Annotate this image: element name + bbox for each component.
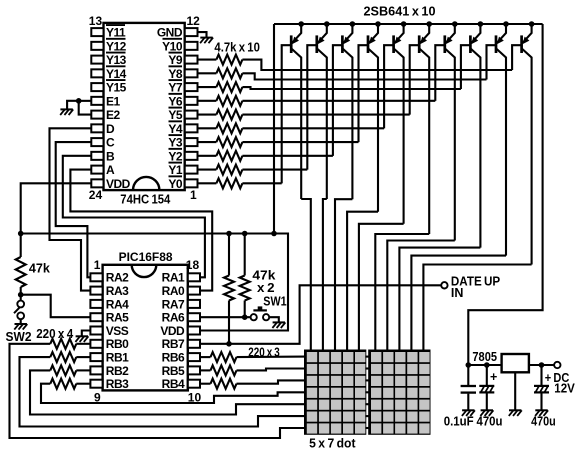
wire U1 Y7 to resistor — [198, 86, 217, 88]
wire RB0 wrap to matrix row — [10, 344, 306, 438]
resistor 4.7k (Y6) — [216, 96, 242, 106]
U1 left pin E1 — [91, 97, 103, 105]
resistor 4.7k (Y4) — [216, 123, 242, 133]
wire RB6 to matrix row1 — [237, 356, 306, 359]
wire U1 Y9 to resistor — [198, 59, 217, 61]
wire U1 Y3 to resistor — [198, 141, 217, 143]
svg-text:RA7: RA7 — [162, 297, 185, 311]
wire Q6 collector to matrix column 6 — [375, 234, 429, 351]
wire RB1 wrap to matrix row — [20, 357, 306, 426]
svg-text:Y0: Y0 — [168, 177, 183, 191]
ground at U1 GND — [200, 37, 212, 39]
U1 left pin Y12 — [91, 42, 103, 50]
wire 7805 ground pin — [514, 372, 516, 410]
resistor 4.7k (Y8) — [216, 68, 242, 78]
transistor Q8 2SB641 — [478, 21, 484, 27]
ground at SW1 — [273, 321, 285, 323]
U1 left pin Y11 — [91, 28, 103, 36]
wire U1 Y4 to resistor — [198, 127, 217, 129]
resistor 4.7k (Y1) — [216, 165, 242, 175]
svg-text:4.7k x 10: 4.7k x 10 — [214, 41, 260, 55]
wire Q2 collector to matrix column 2 — [323, 199, 327, 351]
svg-text:+: + — [490, 370, 497, 384]
wire U2 RB1 to resistor — [76, 356, 90, 358]
svg-text:220 x 4: 220 x 4 — [36, 327, 73, 341]
U1 right pin Y1 — [185, 166, 198, 174]
ground at 470u #2 — [535, 409, 547, 411]
svg-text:RA3: RA3 — [106, 284, 129, 298]
wire U1 E1 to junction — [79, 100, 92, 102]
wire VDD line to 47k — [20, 234, 22, 258]
svg-text:Y6: Y6 — [168, 94, 183, 108]
U1 right pin Y2 — [185, 152, 198, 160]
terminal DATE UP IN — [441, 282, 447, 288]
U1 left pin D — [91, 124, 103, 132]
resistor 220 (RB3) — [50, 379, 76, 389]
resistor 4.7k (Y3) — [216, 137, 242, 147]
svg-text:Y7: Y7 — [168, 81, 183, 95]
wire rail right drop to 5V source — [468, 24, 542, 365]
U1 right pin Y8 — [185, 69, 198, 77]
resistor 47k #1 (RB7 pull-up) — [228, 234, 230, 276]
svg-text:Y3: Y3 — [168, 136, 183, 150]
svg-text:Y14: Y14 — [106, 67, 127, 81]
U1 right pin Y4 — [185, 124, 198, 132]
svg-text:RB5: RB5 — [162, 364, 185, 378]
wire matrix row 5 link — [365, 403, 369, 405]
wire U2 RB0 to resistor — [76, 343, 90, 345]
wire Y7 resistor to Q base riser — [242, 87, 461, 89]
U2 left pin RA5 — [90, 313, 102, 321]
wire U1 Y2 to resistor — [198, 155, 217, 157]
wire Q8 base riser to Y7 — [461, 45, 471, 89]
U2 right pin RB6 — [188, 353, 200, 361]
svg-text:12V: 12V — [554, 382, 575, 396]
svg-text:1: 1 — [94, 258, 101, 272]
wire matrix row 1 link — [365, 356, 369, 358]
wire SW1 to ground — [269, 317, 279, 322]
U2 right pin RB4 — [188, 380, 200, 388]
svg-text:0.1uF: 0.1uF — [444, 415, 474, 429]
wire U2 RB4 to resistor — [200, 383, 211, 385]
svg-text:Y5: Y5 — [168, 108, 183, 122]
wire Q5 collector to matrix column 5 — [359, 224, 404, 351]
node 47k#2 top — [242, 231, 248, 237]
wire Y8 resistor to Q base riser — [242, 73, 486, 79]
svg-text:D: D — [106, 122, 115, 136]
wire to 470u #1 — [486, 365, 488, 385]
wire Q3 base riser to Y2 — [333, 45, 343, 156]
svg-text:24: 24 — [89, 188, 103, 202]
U1 right pin Y3 — [185, 138, 198, 146]
wire Y4 resistor to Q base riser — [242, 127, 384, 129]
svg-text:7805: 7805 — [472, 350, 497, 364]
svg-text:VDD: VDD — [160, 324, 185, 338]
svg-text:RA6: RA6 — [162, 311, 185, 325]
node VDD drop junction — [271, 231, 277, 237]
ground at E1/E2 — [60, 108, 72, 110]
U1 left pin B — [91, 152, 103, 160]
display DS2 5x7 dot matrix — [369, 351, 429, 434]
U1 right pin Y0 — [185, 179, 198, 187]
wire Q4 base riser to Y3 — [359, 45, 369, 142]
svg-text:RB3: RB3 — [106, 377, 129, 391]
svg-text:VDD: VDD — [106, 177, 131, 191]
svg-text:74HC 154: 74HC 154 — [120, 192, 171, 207]
node 5V/0.1uF junction — [466, 362, 472, 368]
switch SW1 left contact — [251, 314, 257, 320]
wire Q10 collector to matrix column 10 — [423, 265, 531, 351]
transistor Q9 2SB641 — [503, 21, 509, 27]
wire 470u #2 to ground — [540, 393, 542, 411]
svg-text:47k: 47k — [29, 261, 50, 275]
wire Q2 base riser to Y1 — [307, 45, 317, 169]
U1 left pin A — [91, 166, 103, 174]
U1 left pin Y14 — [91, 69, 103, 77]
U1 right pin Y6 — [185, 97, 198, 105]
svg-text:VSS: VSS — [106, 324, 129, 338]
transistor Q1 2SB641 — [298, 21, 304, 27]
U2 right pin RA1 — [188, 273, 200, 281]
transistor Q3 2SB641 — [350, 21, 356, 27]
svg-text:RA4: RA4 — [106, 297, 129, 311]
wire U1 C to PIC RA2 — [56, 142, 92, 277]
resistor 4.7k (Y9) — [216, 55, 242, 65]
transistor Q5 2SB641 — [401, 21, 407, 27]
resistor 220 (RB0) — [50, 339, 76, 349]
resistor 220 (RB5) — [211, 365, 237, 375]
svg-text:PIC16F88: PIC16F88 — [119, 250, 173, 264]
U1 left pin Y13 — [91, 56, 103, 64]
U1 right pin GND — [185, 28, 198, 36]
svg-text:Y2: Y2 — [168, 149, 183, 163]
wire U2 RB6 to resistor — [200, 356, 211, 358]
wire matrix row 4 link — [365, 391, 369, 393]
wire Y9 resistor to Q base riser — [242, 60, 512, 70]
wire Q10 base riser to Y9 — [512, 45, 522, 70]
svg-text:5 x 7 dot: 5 x 7 dot — [309, 436, 356, 450]
svg-text:SW1: SW1 — [263, 295, 286, 309]
wire Y0 resistor to Q base riser — [242, 182, 281, 184]
wire matrix row 2 link — [365, 367, 369, 369]
resistor 4.7k (Y0) — [216, 178, 242, 188]
resistor 47k (SW2 pull-up) — [16, 257, 26, 287]
svg-text:x 2: x 2 — [257, 281, 275, 295]
wire matrix row 7 link — [365, 427, 369, 429]
wire U1 Y0 to resistor — [198, 182, 217, 184]
switch SW2 bottom contact — [17, 312, 24, 319]
wire RB4 to matrix row3 — [237, 380, 306, 383]
wire U2 RB2 to resistor — [76, 369, 90, 371]
node 5V/470u junction — [484, 362, 490, 368]
wire Q1 base riser to Y0 — [282, 45, 292, 183]
wire U1 B to PIC RA1 — [63, 156, 205, 277]
wire to 0.1uF — [467, 365, 469, 385]
capacitor 0.1uF — [461, 385, 476, 387]
U2 right pin RA0 — [188, 287, 200, 295]
wire Q8 collector to matrix column 8 — [399, 248, 480, 351]
resistor 220 (RB4) — [211, 379, 237, 389]
switch SW1 button bar — [253, 309, 267, 311]
ground at 0.1uF — [462, 409, 474, 411]
wire U2 RB3 to resistor — [76, 383, 90, 385]
wire Q3 collector to matrix column 3 — [335, 199, 352, 350]
svg-text:RB0: RB0 — [106, 337, 129, 351]
U1 left pin VDD — [91, 179, 103, 187]
U2 left pin RB0 — [90, 340, 102, 348]
wire junction to ground — [67, 101, 79, 110]
svg-text:Y11: Y11 — [106, 26, 126, 40]
wire U2 RB5 to resistor — [200, 369, 211, 371]
resistor 47k #2 (RA6 pull-up) — [244, 234, 246, 276]
U1 right pin Y9 — [185, 56, 198, 64]
capacitor 470u #1 — [479, 385, 494, 387]
regulator U3 7805 body — [502, 354, 529, 372]
wire Q6 base riser to Y5 — [410, 45, 420, 114]
wire Q5 base riser to Y4 — [384, 45, 394, 128]
svg-text:1: 1 — [190, 188, 197, 202]
terminal DC 12V + — [554, 362, 560, 368]
transistor Q2 2SB641 — [324, 21, 330, 27]
U2 left pin VSS — [90, 327, 102, 335]
wire U2 VSS to ground — [82, 331, 91, 337]
svg-text:470u: 470u — [477, 415, 503, 429]
svg-text:Y10: Y10 — [162, 39, 183, 53]
wire RB3 wrap to matrix row — [41, 384, 305, 403]
U2 left pin RB2 — [90, 366, 102, 374]
wire Y3 resistor to Q base riser — [242, 141, 358, 143]
svg-text:SW2: SW2 — [6, 330, 32, 344]
wire +5V top rail — [274, 23, 543, 25]
wire U1 A to PIC RA0 — [70, 170, 212, 291]
wire junction to PIC RA5 — [21, 295, 91, 318]
U1 left pin C — [91, 138, 103, 146]
svg-text:RA1: RA1 — [162, 271, 185, 285]
U2 left pin RB3 — [90, 380, 102, 388]
wire Y2 resistor to Q base riser — [242, 155, 333, 157]
wire RB5 to matrix row2 — [237, 369, 306, 371]
wire 47k to SW2 junction — [20, 287, 22, 295]
resistor 4.7k (Y2) — [216, 151, 242, 161]
U1 left pin Y15 — [91, 83, 103, 91]
svg-text:RB1: RB1 — [106, 351, 129, 365]
svg-text:GND: GND — [157, 26, 183, 40]
wire Q7 base riser to Y6 — [435, 45, 445, 101]
U2 left pin RB1 — [90, 353, 102, 361]
wire rail left drop to VDD line — [273, 24, 275, 234]
svg-text:RA0: RA0 — [162, 284, 185, 298]
svg-text:IN: IN — [451, 286, 464, 300]
IC U1 74HC154 body — [104, 23, 185, 190]
node VDD/47k junction left — [18, 231, 24, 237]
U2 right pin RA6 — [188, 313, 200, 321]
svg-text:Y13: Y13 — [106, 53, 127, 67]
resistor 4.7k (Y5) — [216, 110, 242, 120]
U2 right pin RB7 — [188, 340, 200, 348]
wire Q1 collector to matrix column 1 — [301, 199, 311, 351]
U2 left pin RA4 — [90, 300, 102, 308]
wire RB2 wrap to matrix row — [30, 370, 305, 414]
svg-text:RA5: RA5 — [106, 311, 129, 325]
wire Q4 collector to matrix column 4 — [347, 212, 378, 351]
node 47k#1 top — [226, 231, 232, 237]
svg-text:RB4: RB4 — [162, 377, 185, 391]
svg-text:Y15: Y15 — [106, 81, 127, 95]
svg-text:18: 18 — [186, 258, 200, 272]
wire U2 RB7 to DATE UP IN — [200, 285, 441, 344]
svg-text:470u: 470u — [531, 415, 556, 429]
wire U1 Y5 to resistor — [198, 114, 217, 116]
svg-text:2SB641 x 10: 2SB641 x 10 — [364, 5, 436, 19]
svg-text:C: C — [106, 136, 115, 150]
transistor Q7 2SB641 — [452, 21, 458, 27]
svg-text:13: 13 — [89, 14, 103, 28]
wire Q7 collector to matrix column 7 — [387, 241, 455, 351]
svg-text:RB7: RB7 — [162, 337, 185, 351]
resistor 220 (RB6) — [211, 352, 237, 362]
wire matrix row 3 link — [365, 379, 369, 381]
svg-text:A: A — [106, 163, 115, 177]
wire U1 Y1 to resistor — [198, 169, 217, 171]
wire Q9 collector to matrix column 9 — [411, 256, 506, 351]
wire Y6 resistor to Q base riser — [242, 100, 435, 102]
node RB7/47k junction — [226, 341, 232, 347]
U2 right pin VDD — [188, 327, 200, 335]
wire 0.1uF to ground — [467, 394, 469, 411]
node E1/E2 junction — [76, 98, 82, 104]
node 12V/470u junction — [539, 362, 545, 368]
node RA6/47k junction — [242, 314, 248, 320]
wire VDD distribution line — [21, 234, 288, 331]
ground at 470u #1 — [481, 409, 493, 411]
U1 right pin Y7 — [185, 83, 198, 91]
wire SW2 to ground — [20, 319, 22, 324]
switch SW2 top contact — [17, 301, 24, 308]
wire U1 Y8 to resistor — [198, 72, 217, 74]
svg-text:Y12: Y12 — [106, 39, 127, 53]
svg-text:Y9: Y9 — [168, 53, 183, 67]
wire 7805 output line — [468, 364, 501, 366]
transistor Q4 2SB641 — [375, 21, 381, 27]
resistor 220 (RB2) — [50, 365, 76, 375]
ground at VSS — [76, 335, 88, 337]
U2 left pin RA3 — [90, 287, 102, 295]
node 47k/SW2/RA5 junction — [18, 292, 24, 298]
wire junction to SW2 — [20, 295, 22, 301]
svg-text:RB2: RB2 — [106, 364, 129, 378]
U1 left pin E2 — [91, 111, 103, 119]
svg-text:RB6: RB6 — [162, 351, 185, 365]
wire U2 RA6 to SW1 — [200, 316, 251, 318]
wire Q9 base riser to Y8 — [487, 45, 497, 79]
wire Y5 resistor to Q base riser — [242, 114, 409, 116]
wire U1 Y6 to resistor — [198, 100, 217, 102]
switch SW2 lever — [14, 308, 19, 314]
IC U2 PIC16F88 body — [103, 265, 188, 391]
U2 right pin RA7 — [188, 300, 200, 308]
ground at 7805 — [509, 409, 521, 411]
transistor Q6 2SB641 — [426, 21, 432, 27]
wire U1 D to PIC RA3 — [50, 128, 92, 290]
capacitor 470u #2 — [534, 385, 549, 387]
wire Y1 resistor to Q base riser — [242, 169, 307, 171]
svg-text:Y1: Y1 — [168, 163, 183, 177]
svg-text:Y4: Y4 — [168, 122, 183, 136]
svg-text:B: B — [106, 149, 115, 163]
wire junction to E2 — [79, 101, 92, 115]
svg-text:E2: E2 — [106, 108, 121, 122]
wire 7805 input line — [529, 364, 554, 366]
transistor Q10 2SB641 — [529, 21, 535, 27]
U2 right pin RB5 — [188, 366, 200, 374]
wire to 470u #2 — [540, 365, 542, 385]
resistor 220 (RB1) — [50, 352, 76, 362]
ground at SW2 — [15, 323, 27, 325]
switch SW1 right contact — [263, 314, 269, 320]
U1 right pin Y10 — [185, 42, 198, 50]
display DS1 5x7 dot matrix — [305, 351, 365, 434]
svg-text:Y8: Y8 — [168, 67, 183, 81]
wire 470u #1 to ground — [486, 393, 488, 411]
svg-text:RA2: RA2 — [106, 271, 129, 285]
U1 right pin Y5 — [185, 111, 198, 119]
wire matrix row 6 link — [365, 415, 369, 417]
svg-text:12: 12 — [187, 14, 201, 28]
resistor 4.7k (Y7) — [216, 82, 242, 92]
wire U1 GND pin to ground — [198, 32, 207, 38]
wire U1 VDD to VDD line — [21, 183, 92, 233]
U2 left pin RA2 — [90, 273, 102, 281]
svg-text:E1: E1 — [106, 94, 121, 108]
